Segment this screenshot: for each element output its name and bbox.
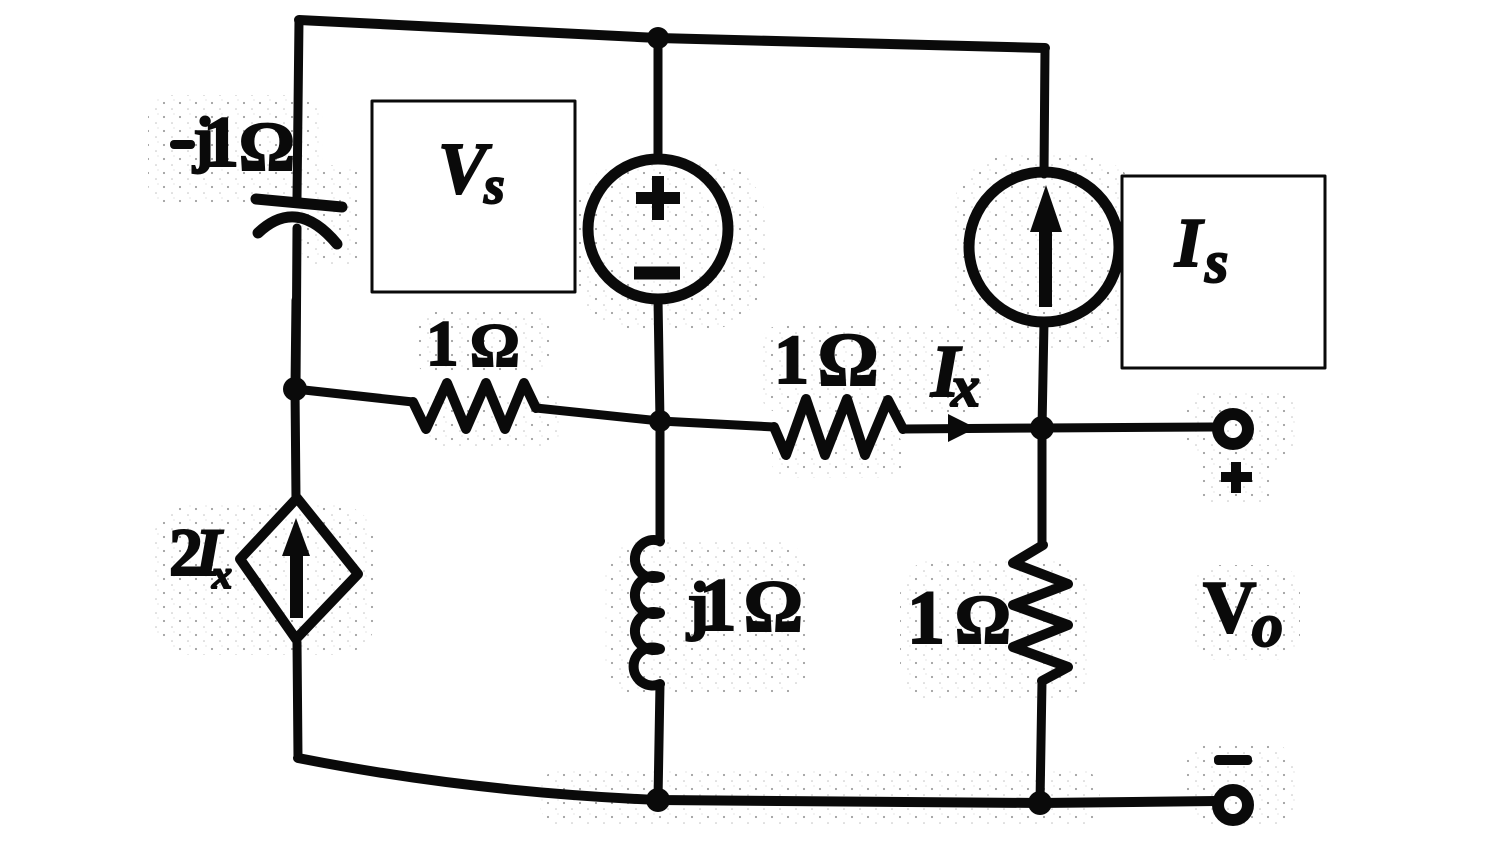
label 1 ohm (R2) — [774, 318, 877, 402]
output terminal minus (open circle) — [1218, 790, 1248, 820]
svg-text:o: o — [1252, 592, 1283, 660]
svg-text:I: I — [1174, 205, 1205, 282]
wire left vertical (capacitor to left-middle node) — [295, 300, 296, 388]
label 1 ohm (R1) — [426, 308, 519, 380]
svg-text:Ω: Ω — [819, 318, 877, 402]
wire middle vertical (top junction to voltage source) — [654, 38, 663, 158]
svg-text:V: V — [1203, 567, 1256, 649]
current source Is circle — [969, 172, 1119, 322]
wire left vertical upper (corner to capacitor) — [297, 20, 299, 198]
label -j1 ohm (capacitor) — [170, 102, 294, 186]
label 2Ix (dependent source) — [169, 514, 232, 597]
wire dependent source to bottom-left corner — [297, 642, 298, 758]
junction node center middle — [649, 410, 671, 432]
label Is — [1174, 205, 1228, 295]
svg-text:x: x — [950, 354, 980, 419]
wire R1 to middle node — [536, 408, 660, 421]
output terminal plus (open circle) — [1218, 414, 1248, 444]
svg-text:1: 1 — [426, 308, 459, 380]
wire current source to right-middle node — [1042, 322, 1044, 428]
wire R2 to right node with Ix arrow — [903, 428, 1042, 429]
label Vo (output voltage) — [1203, 567, 1283, 660]
dependent source arrow — [282, 518, 310, 618]
junction node right middle — [1030, 416, 1054, 440]
junction node bottom right — [1028, 791, 1052, 815]
wire right node to output terminal plus — [1042, 427, 1213, 428]
wire left node to dependent source — [295, 388, 296, 500]
wire middle horizontal: left node to resistor R1 — [295, 389, 413, 402]
svg-text:1: 1 — [907, 576, 945, 660]
voltage source Vs circle — [588, 159, 728, 299]
svg-text:s: s — [1204, 229, 1228, 295]
wire resistor to bottom-right node — [1040, 681, 1042, 803]
svg-text:1: 1 — [774, 322, 809, 399]
svg-text:Ω: Ω — [956, 582, 1010, 659]
svg-text:x: x — [211, 552, 232, 597]
wire bottom — [298, 758, 1216, 803]
wire middle node to resistor R2 — [660, 421, 774, 427]
junction node bottom center — [646, 788, 670, 812]
wire inductor to bottom node — [658, 684, 660, 800]
label 1 ohm (R3 right) — [907, 576, 1010, 660]
wire right vertical (top-right corner to current source) — [1044, 48, 1045, 174]
inductor j1 ohm — [634, 540, 660, 686]
wire top (left corner to top-right corner) — [299, 20, 1045, 48]
label Vs — [438, 128, 505, 215]
current Ix arrowhead — [948, 414, 976, 442]
wire middle node to inductor — [656, 421, 665, 542]
voltage source minus sign — [634, 267, 680, 280]
Vs label box — [372, 101, 575, 292]
svg-text:Ω: Ω — [471, 312, 519, 380]
label plus terminal — [1221, 462, 1252, 493]
resistor 1 ohm (second on middle wire) — [774, 399, 903, 455]
svg-text:1: 1 — [203, 102, 239, 182]
label j1 ohm (inductor) — [686, 564, 802, 648]
junction node top middle — [647, 27, 669, 49]
label minus terminal — [1214, 755, 1252, 765]
current source arrow — [1030, 185, 1062, 307]
wire voltage source to middle node — [658, 299, 660, 421]
svg-text:1: 1 — [699, 564, 737, 647]
voltage source plus sign — [636, 176, 680, 220]
label Ix (controlling current) — [930, 331, 980, 419]
capacitor -j1 ohm — [256, 199, 342, 388]
dependent source 2Ix (diamond) — [240, 498, 358, 639]
Is label box — [1122, 176, 1325, 368]
wire right-middle node to resistor 1ohm right — [1038, 428, 1047, 546]
svg-text:s: s — [483, 157, 505, 215]
svg-text:Ω: Ω — [240, 109, 294, 186]
resistor 1 ohm (left of middle wire) — [413, 383, 536, 429]
junction node left middle — [283, 377, 307, 401]
svg-text:Ω: Ω — [745, 566, 802, 648]
resistor 1 ohm (right vertical) — [1013, 545, 1068, 681]
